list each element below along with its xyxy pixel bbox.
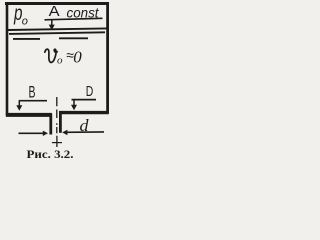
vessel bottom floor right [59, 111, 109, 114]
arrow D shaft [73, 100, 75, 107]
svg-text:d: d [80, 116, 90, 135]
d arrow left head [43, 131, 48, 136]
piston surface line upper [8, 28, 107, 30]
svg-text:D: D [86, 83, 94, 100]
d arrow right head [62, 130, 67, 135]
d dimension arrow left shaft [19, 132, 44, 134]
vessel right wall [106, 2, 109, 114]
axis cross tick [52, 142, 62, 144]
D leader underline [72, 99, 97, 101]
A const underline [45, 18, 103, 20]
liquid shading dash left [13, 38, 40, 40]
svg-text:B: B [29, 84, 36, 102]
arrow B shaft [18, 101, 20, 107]
vessel left wall [6, 2, 9, 115]
vessel bottom floor left [6, 113, 52, 117]
arrow D head [71, 105, 77, 111]
svg-text:const: const [67, 6, 100, 21]
svg-text:o: o [22, 16, 28, 28]
script v glyph [45, 49, 57, 62]
liquid surface line lower [9, 32, 105, 34]
nozzle tube right wall [59, 112, 62, 133]
arrow A head [49, 25, 55, 30]
svg-text:0: 0 [73, 48, 82, 67]
d dimension arrow right shaft [66, 131, 105, 133]
axis centerline dash-dot [56, 97, 58, 147]
svg-text:o: o [57, 55, 63, 67]
arrow A shaft [51, 20, 53, 26]
nozzle tube left wall [49, 114, 52, 135]
B leader underline [19, 100, 47, 102]
arrow B head [16, 105, 22, 111]
svg-text:A: A [49, 3, 60, 20]
liquid shading dash right [59, 37, 88, 39]
svg-text:Рис. 3.2.: Рис. 3.2. [27, 149, 74, 161]
vessel top wall [5, 2, 109, 5]
